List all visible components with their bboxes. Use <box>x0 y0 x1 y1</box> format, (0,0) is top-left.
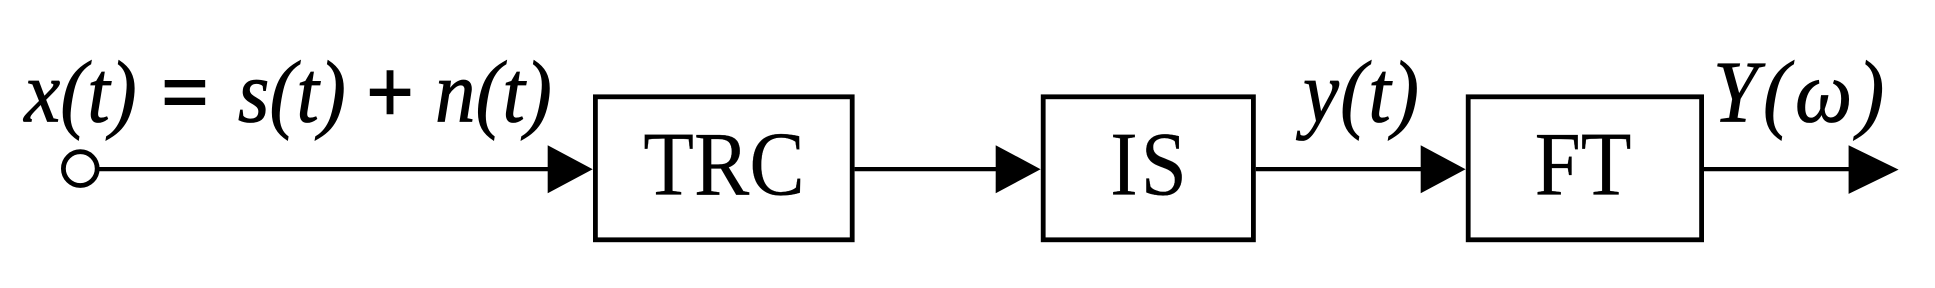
svg-text:FT: FT <box>1535 113 1632 214</box>
wire input to TRC <box>97 167 550 171</box>
svg-text:IS: IS <box>1110 113 1190 214</box>
block FT <box>1468 97 1701 240</box>
node label x(t) = s(t) + n(t) <box>22 44 552 141</box>
wire FT to output <box>1704 167 1851 171</box>
svg-text:TRC: TRC <box>643 113 804 214</box>
svg-text:Y(ω): Y(ω) <box>1713 44 1889 141</box>
block IS <box>1043 97 1253 240</box>
node input terminal (open circle) <box>63 152 97 186</box>
arrowhead into TRC <box>548 145 593 193</box>
svg-text:x(t)=s(t)+n(t): x(t)=s(t)+n(t) <box>22 44 552 141</box>
svg-text:y(t): y(t) <box>1295 44 1420 141</box>
label IS <box>1110 113 1190 214</box>
block TRC <box>595 97 852 240</box>
node label y(t) <box>1295 44 1420 141</box>
wire TRC to IS <box>855 167 998 171</box>
output arrowhead <box>1849 145 1899 194</box>
arrowhead into IS <box>996 145 1041 193</box>
node label Y(omega) <box>1713 44 1889 141</box>
label TRC <box>643 113 804 214</box>
wire IS to FT <box>1256 167 1423 171</box>
label FT <box>1535 113 1632 214</box>
arrowhead into FT <box>1421 145 1466 193</box>
